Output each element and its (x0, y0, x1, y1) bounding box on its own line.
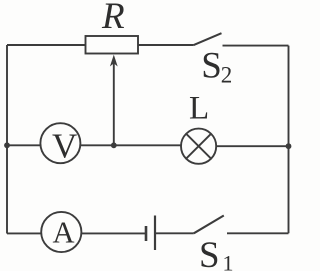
node A (left rail junction) (4, 142, 10, 148)
svg-text:A: A (53, 216, 75, 250)
svg-text:1: 1 (223, 251, 234, 271)
svg-text:R: R (101, 0, 125, 37)
rheostat wiper arrowhead (110, 55, 118, 67)
wire left rail (6, 45, 8, 234)
wire S2 contact to top-right corner (223, 45, 289, 47)
wire top rail left segment (7, 44, 85, 46)
wire rheostat wiper vertical (113, 63, 115, 145)
wire ammeter to bottom-left corner (7, 232, 41, 234)
battery positive plate (long) (154, 216, 156, 251)
node B (wiper junction) (111, 142, 117, 148)
svg-text:S: S (199, 235, 220, 271)
wire node left to voltmeter (7, 144, 41, 146)
ammeter A1 body (41, 212, 81, 252)
wire resistor to switch S2 (138, 44, 193, 46)
wire right rail (288, 46, 290, 234)
node C (right rail junction) (286, 143, 292, 149)
svg-text:2: 2 (221, 62, 233, 87)
wire voltmeter to node B (80, 144, 181, 146)
lamp L body (181, 129, 216, 164)
switch S1 blade (194, 216, 224, 234)
wire battery to ammeter (82, 232, 147, 234)
lamp L cross (186, 134, 211, 159)
svg-text:V: V (52, 127, 77, 166)
svg-text:L: L (189, 90, 209, 126)
resistor R (rheostat body) (86, 36, 139, 54)
voltmeter V1 body (40, 123, 80, 163)
wire S1 to battery (155, 232, 194, 234)
switch S2 blade (193, 33, 221, 45)
wire lamp to right rail (216, 145, 288, 147)
svg-text:S: S (201, 46, 222, 87)
battery negative plate (short) (145, 226, 148, 241)
wire bottom rail right segment (227, 232, 289, 234)
